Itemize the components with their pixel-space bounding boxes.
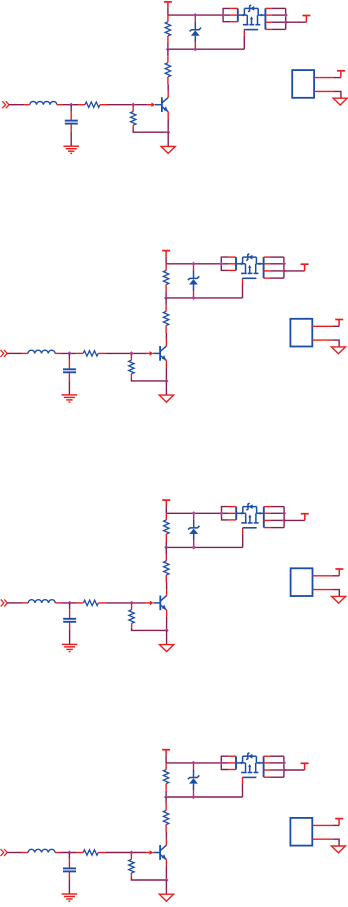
connector J2 — [290, 319, 332, 347]
wire — [68, 353, 70, 359]
ground — [331, 846, 345, 853]
junction — [284, 20, 288, 24]
wire — [165, 791, 167, 797]
resistor R21 — [163, 264, 168, 292]
node A junction — [67, 351, 71, 355]
wire — [132, 628, 167, 631]
wire — [270, 756, 284, 777]
ground — [62, 644, 78, 651]
junction — [284, 13, 288, 17]
wire — [68, 853, 70, 859]
transistor Q4 — [146, 839, 166, 867]
port P2 input — [1, 350, 8, 357]
wire — [166, 546, 242, 548]
wire — [332, 824, 339, 826]
wire — [68, 380, 70, 394]
resistor R33 — [76, 600, 105, 605]
node B junction — [130, 601, 134, 605]
resistor R43 — [76, 850, 105, 855]
wire — [168, 14, 223, 16]
node A junction — [68, 601, 72, 605]
wire — [332, 839, 339, 846]
resistor R41 — [163, 763, 168, 791]
junction — [166, 47, 170, 51]
wire — [165, 797, 167, 804]
power VOUT — [301, 763, 309, 770]
wire — [165, 880, 167, 894]
wire — [7, 602, 22, 604]
junction — [191, 262, 195, 266]
wire — [166, 263, 221, 265]
zener diode D2 — [188, 264, 200, 298]
junction — [221, 13, 225, 17]
wire — [69, 630, 71, 644]
wire — [165, 547, 167, 554]
wire — [60, 352, 76, 354]
junction — [164, 296, 168, 300]
junction — [219, 761, 223, 765]
MOSFET U4 — [228, 753, 270, 784]
junction — [192, 511, 196, 515]
ground — [62, 894, 78, 901]
power VCC — [335, 320, 343, 327]
node A junction — [67, 850, 71, 854]
wire — [68, 880, 70, 894]
wire — [286, 21, 307, 23]
wire — [166, 762, 221, 764]
junction — [164, 545, 168, 549]
ground — [63, 146, 79, 153]
power VOUT — [301, 264, 309, 271]
wire — [165, 298, 167, 305]
wire — [284, 270, 305, 272]
wire — [167, 84, 169, 91]
power VOUT — [301, 514, 309, 521]
inductor L4 — [22, 849, 60, 852]
power VOUT — [302, 16, 310, 23]
zener diode D1 — [190, 15, 202, 49]
node A junction — [69, 103, 73, 107]
MOSFET U1 — [230, 5, 272, 36]
power VCC — [164, 2, 172, 8]
junction — [219, 262, 223, 266]
wire — [332, 575, 339, 577]
resistor R14 — [131, 105, 136, 130]
junction — [282, 511, 286, 515]
MOSFET U3 — [229, 503, 271, 534]
junction — [282, 262, 286, 266]
junction — [164, 795, 168, 799]
ground — [159, 395, 173, 402]
resistor R24 — [129, 353, 134, 378]
ground — [333, 98, 347, 105]
wire — [70, 132, 72, 146]
junction — [282, 269, 286, 273]
wire — [167, 43, 169, 49]
wire — [165, 832, 167, 839]
wire — [270, 257, 284, 278]
node B junction — [131, 103, 135, 107]
wire — [168, 48, 244, 50]
zener diode D3 — [188, 513, 200, 547]
junction — [193, 13, 197, 17]
transistor Q3 — [146, 589, 166, 617]
wire — [62, 104, 78, 106]
wire — [332, 340, 339, 347]
wire — [166, 297, 242, 299]
wire — [166, 630, 168, 644]
MOSFET U2 — [228, 254, 270, 285]
wire — [221, 756, 228, 769]
node B junction — [129, 351, 133, 355]
junction — [192, 545, 196, 549]
ground — [331, 347, 345, 354]
port P3 input — [1, 599, 8, 606]
power VCC — [162, 750, 170, 756]
resistor R32 — [164, 554, 169, 582]
wire — [105, 852, 146, 854]
ground — [161, 146, 175, 153]
wire — [334, 77, 341, 79]
wire — [167, 132, 169, 146]
wire — [9, 104, 24, 106]
wire — [7, 852, 22, 854]
port P1 input — [2, 101, 9, 108]
power VCC — [335, 569, 343, 576]
wire — [167, 49, 169, 56]
wire — [242, 784, 244, 797]
junction — [282, 761, 286, 765]
wire — [243, 36, 245, 49]
resistor R31 — [164, 513, 169, 541]
ground — [160, 645, 174, 652]
wire — [165, 756, 167, 763]
wire — [166, 583, 168, 590]
capacitor C4 — [63, 859, 76, 880]
ground — [332, 596, 346, 603]
junction — [166, 130, 170, 134]
resistor R13 — [78, 102, 107, 107]
junction — [164, 379, 168, 383]
inductor L1 — [24, 101, 62, 104]
inductor L2 — [22, 350, 60, 353]
wire — [165, 367, 167, 381]
resistor R42 — [163, 804, 168, 832]
wire — [61, 602, 77, 604]
ground — [62, 395, 78, 402]
inductor L3 — [23, 600, 61, 603]
junction — [191, 761, 195, 765]
wire — [165, 257, 167, 264]
connector J1 — [292, 70, 334, 98]
resistor R44 — [129, 853, 134, 878]
junction — [193, 47, 197, 51]
resistor R11 — [165, 15, 170, 43]
capacitor C3 — [63, 609, 76, 630]
junction — [164, 878, 168, 882]
wire — [221, 257, 228, 270]
power VCC — [162, 251, 170, 257]
port P4 input — [1, 849, 8, 856]
wire — [332, 325, 339, 327]
wire — [242, 285, 244, 298]
wire — [284, 519, 305, 521]
wire — [165, 541, 167, 547]
wire — [165, 866, 167, 880]
resistor R12 — [165, 56, 170, 84]
wire — [60, 852, 76, 854]
junction — [282, 768, 286, 772]
wire — [131, 378, 166, 381]
node B junction — [129, 850, 133, 854]
ground — [159, 894, 173, 901]
wire — [165, 506, 167, 513]
wire — [131, 877, 166, 880]
wire — [7, 352, 22, 354]
wire — [270, 507, 284, 528]
wire — [332, 590, 339, 597]
junction — [219, 511, 223, 515]
junction — [282, 518, 286, 522]
wire — [166, 617, 168, 631]
wire — [133, 130, 168, 133]
wire — [166, 512, 221, 514]
transistor Q2 — [146, 340, 166, 368]
connector J3 — [291, 568, 333, 596]
wire — [242, 534, 244, 547]
wire — [165, 333, 167, 340]
junction — [191, 795, 195, 799]
wire — [105, 602, 146, 604]
wire — [334, 91, 341, 98]
wire — [167, 119, 169, 133]
resistor R23 — [76, 351, 105, 356]
capacitor C1 — [65, 111, 78, 132]
junction — [165, 628, 169, 632]
capacitor C2 — [63, 360, 76, 381]
transistor Q1 — [148, 91, 168, 119]
wire — [284, 769, 305, 771]
wire — [105, 352, 146, 354]
wire — [223, 8, 230, 21]
wire — [166, 796, 242, 798]
connector J4 — [290, 818, 332, 846]
wire — [165, 381, 167, 395]
power VCC — [337, 71, 345, 78]
resistor R34 — [129, 603, 134, 628]
resistor R22 — [163, 305, 168, 333]
wire — [107, 104, 148, 106]
wire — [70, 105, 72, 111]
zener diode D4 — [188, 763, 200, 797]
wire — [222, 507, 229, 520]
power VCC — [162, 500, 170, 506]
wire — [272, 8, 286, 29]
wire — [167, 8, 169, 15]
wire — [165, 292, 167, 298]
junction — [191, 296, 195, 300]
wire — [69, 603, 71, 609]
power VCC — [335, 819, 343, 826]
